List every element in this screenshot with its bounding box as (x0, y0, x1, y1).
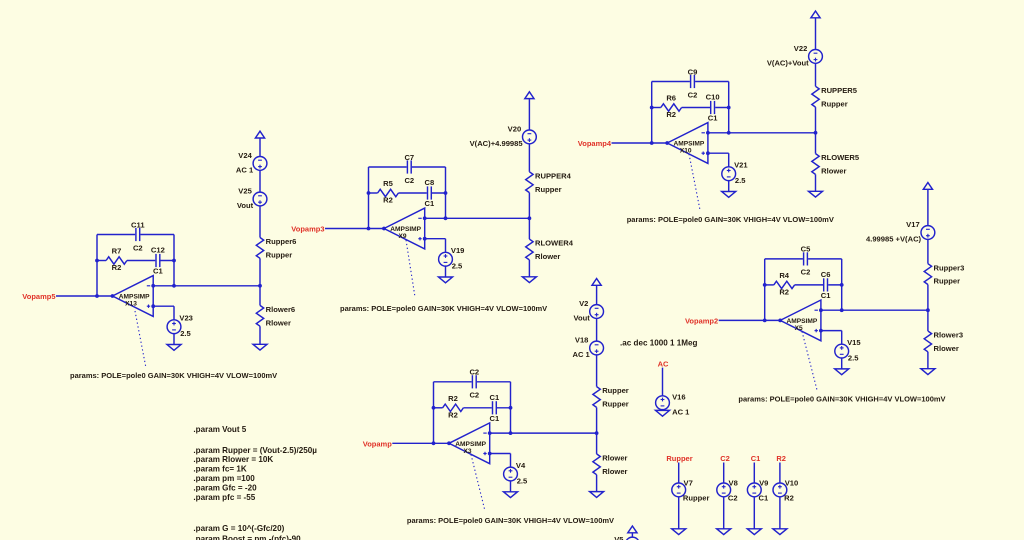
wire X5 Rlower to gnd (927, 352, 929, 369)
wire X9 feedback right vertical (445, 167, 447, 218)
svg-text:AC 1: AC 1 (672, 407, 690, 416)
junction X10 apex pin (665, 141, 669, 145)
capacitor C6 (821, 270, 831, 300)
svg-text:V9: V9 (759, 479, 768, 488)
wire X5 input (719, 319, 781, 321)
wire X13 +in stub (153, 305, 174, 307)
capacitor C10 (706, 93, 720, 123)
capacitor C7 (404, 153, 414, 185)
wire X10 src to Rupper (815, 63, 817, 86)
wire X13 Rlower to gnd (259, 326, 261, 344)
wire X3 +in down (510, 454, 512, 468)
voltage source V10 (R2) (773, 479, 798, 503)
wire X13 feedback right vertical (173, 235, 175, 286)
svg-text:R2: R2 (448, 410, 458, 419)
capacitor C12 (151, 246, 165, 276)
svg-text:AMPSIMP: AMPSIMP (119, 294, 150, 301)
wire V16 top (662, 368, 664, 397)
svg-text:C5: C5 (801, 245, 811, 254)
svg-text:C1: C1 (490, 393, 500, 402)
svg-text:C2: C2 (133, 243, 143, 252)
svg-text:R7: R7 (112, 247, 122, 256)
svg-text:.param G = 10^(-Gfc/20): .param G = 10^(-Gfc/20) (193, 524, 284, 533)
wire X13 +in down (173, 306, 175, 320)
wire X13 -in to divider (153, 285, 260, 287)
svg-text:V4: V4 (516, 461, 526, 470)
svg-text:Rupper: Rupper (666, 454, 692, 463)
leader dotted line X13 params leader (135, 311, 146, 368)
svg-text:V15: V15 (847, 338, 861, 347)
resistor RUPPER5 (812, 86, 858, 108)
svg-text:.ac dec 1000 1 1Meg: .ac dec 1000 1 1Meg (620, 339, 697, 348)
svg-text:C1: C1 (490, 414, 500, 423)
svg-text:C2: C2 (728, 494, 738, 503)
wire X13 feedback left vertical (96, 235, 98, 297)
wire X10 input (612, 142, 668, 144)
svg-text:Vopamp3: Vopamp3 (291, 225, 324, 234)
svg-text:C10: C10 (706, 93, 720, 102)
junction X10 box right-mid (727, 106, 731, 110)
svg-text:Rupper: Rupper (602, 386, 629, 395)
svg-text:C2: C2 (720, 454, 730, 463)
flag arrow X3 divider top (592, 279, 601, 286)
wire X9 Rupper to junction (528, 193, 530, 219)
svg-text:Vout: Vout (237, 201, 254, 210)
svg-text:Vopamp: Vopamp (363, 440, 392, 449)
resistor Rlower3 (924, 331, 963, 353)
wire V8 top (723, 463, 725, 484)
wire X5 +in down (841, 331, 843, 345)
svg-text:AC: AC (658, 359, 669, 368)
junction X3 divider junction (595, 431, 599, 435)
junction X3 box right-mid (509, 406, 513, 410)
junction X9 box right-mid (444, 191, 448, 195)
svg-text:C2: C2 (404, 176, 414, 185)
svg-text:V22: V22 (794, 44, 808, 53)
wire X13 feedback mid left (97, 260, 106, 262)
svg-text:C2: C2 (801, 268, 811, 277)
junction X5 box left-input (763, 319, 767, 323)
svg-text:params: POLE=pole0 GAIN=30K VH: params: POLE=pole0 GAIN=30K VHIGH=4V VLO… (627, 215, 834, 224)
junction X9 -in pin (423, 216, 427, 220)
wire X3 Rupper to junction (596, 407, 598, 433)
svg-text:V23: V23 (179, 314, 193, 323)
junction X13 apex pin (111, 294, 115, 298)
resistor R7 (106, 247, 127, 273)
wire X10 -in to divider (708, 132, 816, 134)
svg-text:Rupper: Rupper (683, 494, 710, 503)
voltage source V24 (AC 1) (236, 151, 267, 175)
voltage source V25 (Vout) (237, 187, 267, 211)
resistor R2 (443, 394, 464, 420)
leader dotted line X10 params leader (689, 154, 700, 210)
voltage source V15 (2.5) (835, 338, 862, 363)
wire X9 feedback mid right (398, 192, 445, 194)
flag arrow X10 divider top (811, 11, 820, 18)
wire X9 feedback top (369, 166, 446, 168)
wire X13 between sources (259, 170, 261, 192)
svg-text:params: POLE=pole0 GAIN=30K VH: params: POLE=pole0 GAIN=30K VHIGH=4V VLO… (70, 371, 277, 380)
svg-text:X10: X10 (680, 148, 692, 155)
wire X10 ref to gnd (728, 181, 730, 192)
wire X10 Rlower to gnd (815, 174, 817, 191)
voltage source V8 (C2) (717, 479, 738, 503)
svg-text:Rupper6: Rupper6 (266, 237, 297, 246)
svg-text:V2: V2 (579, 299, 588, 308)
svg-text:params: POLE=pole0 GAIN=30K VH: params: POLE=pole0 GAIN=30K VHIGH=4V VLO… (340, 304, 547, 313)
wire X3 +in stub (490, 453, 511, 455)
resistor Rupper3 (924, 263, 964, 285)
svg-text:AC 1: AC 1 (236, 166, 254, 175)
svg-text:Rupper: Rupper (821, 99, 848, 108)
capacitor C1 (490, 393, 500, 423)
svg-text:V24: V24 (238, 151, 252, 160)
svg-text:V16: V16 (672, 392, 686, 401)
svg-text:V(AC)+4.99985: V(AC)+4.99985 (470, 139, 524, 148)
resistor RLOWER5 (812, 153, 860, 175)
junction X9 apex pin (382, 227, 386, 231)
svg-text:Rlower: Rlower (821, 167, 846, 176)
wire X9 junction to Rlower (528, 218, 530, 239)
wire X9 feedback left vertical (368, 167, 370, 229)
junction X5 +in pin (819, 329, 823, 333)
wire X3 feedback mid right (463, 407, 510, 409)
svg-text:2.5: 2.5 (517, 476, 528, 485)
voltage source V2 (Vout) (573, 299, 603, 323)
ground V8 (717, 529, 731, 535)
wire X10 feedback mid right (682, 107, 729, 109)
ground V10 (773, 529, 787, 535)
wire X13 feedback top (97, 234, 174, 236)
wire X10 +in stub (708, 152, 729, 154)
junction X10 box left-input (650, 141, 654, 145)
flag arrow V5 top (628, 526, 637, 533)
ground X9 divider (522, 277, 536, 283)
voltage source V21 (2.5) (722, 161, 749, 186)
svg-text:R2: R2 (784, 494, 794, 503)
ground X10 divider (809, 191, 823, 197)
svg-text:V17: V17 (906, 220, 920, 229)
svg-text:Rupper: Rupper (602, 400, 629, 409)
ground X13 ref (167, 345, 181, 351)
ground V7 (672, 529, 686, 535)
svg-text:Rlower: Rlower (535, 252, 560, 261)
svg-text:R2: R2 (112, 263, 122, 272)
svg-text:C7: C7 (404, 153, 414, 162)
svg-text:R2: R2 (779, 288, 789, 297)
junction X9 box left-input (367, 227, 371, 231)
svg-text:.param Rlower = 10K: .param Rlower = 10K (193, 455, 273, 464)
wire X3 Rlower to gnd (596, 475, 598, 492)
wire X5 -in to divider (821, 309, 928, 311)
junction X10 +in pin (706, 151, 710, 155)
svg-text:V20: V20 (508, 124, 522, 133)
svg-text:Vopamp2: Vopamp2 (685, 317, 718, 326)
junction X9 box left-mid (367, 191, 371, 195)
junction X3 box left-input (432, 441, 436, 445)
svg-text:X3: X3 (463, 448, 471, 455)
svg-text:R2: R2 (383, 196, 393, 205)
wire X10 feedback left vertical (651, 82, 653, 144)
svg-text:Vopamp5: Vopamp5 (22, 292, 55, 301)
capacitor C2 (469, 368, 479, 400)
wire X10 feedback mid left (652, 107, 661, 109)
wire X5 feedback left vertical (764, 259, 766, 321)
junction X3 +in pin (488, 452, 492, 456)
svg-text:R4: R4 (779, 271, 789, 280)
junction X3 apex pin (447, 441, 451, 445)
svg-text:C2: C2 (469, 391, 479, 400)
wire V7 to gnd (678, 497, 680, 529)
ground X10 ref (722, 192, 736, 198)
svg-text:Rlower: Rlower (934, 344, 959, 353)
svg-text:RLOWER5: RLOWER5 (821, 153, 860, 162)
capacitor C11 (131, 220, 145, 252)
svg-text:X13: X13 (125, 301, 137, 308)
svg-text:C6: C6 (821, 270, 831, 279)
wire X5 src to Rupper (927, 239, 929, 263)
junction X10 -in pin (706, 131, 710, 135)
junction X5 box left-mid (763, 283, 767, 287)
svg-text:V5: V5 (614, 535, 624, 540)
voltage source V18 (AC 1) (572, 336, 603, 360)
wire X3 junction to Rlower (596, 433, 598, 454)
flag arrow X9 divider top (525, 92, 534, 99)
svg-text:C1: C1 (759, 494, 769, 503)
op-amp X13 (AMPSIMP) (113, 276, 154, 317)
junction X5 box right-mid (840, 283, 844, 287)
svg-text:.param Gfc = -20: .param Gfc = -20 (193, 484, 257, 493)
wire X5 divider top wire (927, 189, 929, 225)
voltage source V16 (AC 1) (656, 392, 691, 416)
svg-text:AMPSIMP: AMPSIMP (674, 141, 705, 148)
svg-text:Rupper: Rupper (266, 251, 293, 260)
svg-text:V25: V25 (238, 187, 252, 196)
svg-text:C2: C2 (469, 368, 479, 377)
wire X13 Rupper to junction (259, 258, 261, 286)
wire V9 top (753, 463, 755, 484)
ground X5 divider (921, 369, 935, 375)
wire X5 junction to Rlower (927, 310, 929, 331)
resistor Rupper (593, 386, 629, 408)
junction X10 box left-mid (650, 106, 654, 110)
capacitor C5 (801, 245, 811, 277)
wire X3 feedback right vertical (510, 382, 512, 433)
wire V10 top (779, 463, 781, 484)
wire X5 +in stub (821, 330, 842, 332)
svg-text:AMPSIMP: AMPSIMP (787, 318, 818, 325)
wire X3 src to Rupper (596, 355, 598, 387)
junction X3 box left-mid (432, 406, 436, 410)
resistor RUPPER4 (526, 171, 572, 193)
resistor Rupper6 (256, 237, 296, 259)
op-amp X10 (AMPSIMP) (667, 123, 708, 164)
svg-text:.param pm =100: .param pm =100 (193, 474, 255, 483)
svg-text:Rupper3: Rupper3 (934, 263, 965, 272)
voltage source V23 (2.5) (167, 314, 193, 339)
svg-text:Rlower6: Rlower6 (266, 305, 296, 314)
svg-text:R5: R5 (383, 179, 393, 188)
junction X9 +in pin (423, 237, 427, 241)
svg-text:V19: V19 (451, 246, 465, 255)
wire X3 ref to gnd (510, 481, 512, 492)
op-amp X5 (AMPSIMP) (780, 300, 821, 341)
junction X9 divider junction (528, 216, 532, 220)
junction X13 +in pin (151, 304, 155, 308)
flag arrow X5 divider top (923, 183, 932, 190)
svg-text:V10: V10 (785, 479, 799, 488)
junction X5 -in pin (819, 308, 823, 312)
junction X5 box right -in (840, 308, 844, 312)
svg-text:.param fc= 1K: .param fc= 1K (193, 465, 246, 474)
voltage source V20 (V(AC)+4.99985) (470, 124, 537, 148)
svg-text:.param Rupper = (Vout-2.5)/250: .param Rupper = (Vout-2.5)/250µ (193, 446, 317, 455)
svg-text:Rupper: Rupper (934, 277, 961, 286)
svg-text:C1: C1 (153, 267, 163, 276)
leader dotted line X9 params leader (406, 240, 415, 297)
junction X3 box right -in (509, 431, 513, 435)
junction X13 -in pin (151, 284, 155, 288)
svg-text:C2: C2 (688, 90, 698, 99)
svg-text:Rlower: Rlower (266, 318, 291, 327)
svg-text:4.99985 +V(AC): 4.99985 +V(AC) (866, 235, 922, 244)
svg-text:C1: C1 (708, 114, 718, 123)
svg-text:.param pfc = -55: .param pfc = -55 (193, 493, 255, 502)
svg-text:.param Vout 5: .param Vout 5 (193, 425, 246, 434)
svg-text:C11: C11 (131, 220, 145, 229)
wire X9 divider top wire (528, 99, 530, 130)
spice directive .param block (193, 425, 317, 540)
svg-text:C9: C9 (688, 67, 698, 76)
wire X3 between sources (596, 318, 598, 341)
junction X9 box right -in (444, 216, 448, 220)
resistor Rlower (593, 454, 628, 476)
svg-text:Rlower: Rlower (602, 467, 627, 476)
svg-text:X5: X5 (795, 325, 803, 332)
wire X10 Rupper to junction (815, 107, 817, 133)
svg-text:V(AC)+Vout: V(AC)+Vout (767, 59, 809, 68)
svg-text:C1: C1 (821, 291, 831, 300)
wire X10 feedback right vertical (728, 82, 730, 133)
resistor Rlower6 (256, 305, 295, 327)
svg-text:RLOWER4: RLOWER4 (535, 239, 574, 248)
svg-text:.param Boost = pm -(pfc)-90: .param Boost = pm -(pfc)-90 (193, 534, 301, 540)
junction X5 divider junction (926, 308, 930, 312)
wire X9 ref to gnd (445, 266, 447, 277)
leader dotted line X5 params leader (802, 332, 817, 391)
wire X9 input (325, 228, 384, 230)
wire X9 Rlower to gnd (528, 260, 530, 277)
wire X9 +in stub (425, 238, 446, 240)
wire X13 src to Rupper (259, 206, 261, 238)
wire X13 ref to gnd (173, 334, 175, 345)
wire X5 feedback mid right (795, 284, 842, 286)
voltage source V5 (cut off) (614, 526, 639, 540)
op-amp X9 (AMPSIMP) (384, 208, 425, 249)
wire X3 feedback left vertical (433, 382, 435, 444)
svg-text:AMPSIMP: AMPSIMP (390, 226, 421, 233)
svg-text:RUPPER4: RUPPER4 (535, 171, 572, 180)
ground X9 ref (439, 277, 453, 283)
svg-text:params: POLE=pole0 GAIN=30K VH: params: POLE=pole0 GAIN=30K VHIGH=4V VLO… (407, 516, 614, 525)
svg-text:R2: R2 (666, 110, 676, 119)
svg-text:R2: R2 (448, 394, 458, 403)
svg-text:Vout: Vout (573, 314, 590, 323)
wire V9 to gnd (753, 497, 755, 529)
op-amp X3 (AMPSIMP) (449, 423, 490, 464)
resistor R5 (378, 179, 399, 205)
ground V16 (656, 410, 670, 416)
svg-text:R2: R2 (776, 454, 786, 463)
voltage source V22 (V(AC)+Vout) (767, 44, 823, 68)
svg-text:C12: C12 (151, 246, 165, 255)
wire V8 to gnd (723, 497, 725, 529)
svg-text:AMPSIMP: AMPSIMP (455, 441, 486, 448)
svg-text:params: POLE=pole0 GAIN=30K VH: params: POLE=pole0 GAIN=30K VHIGH=4V VLO… (738, 395, 945, 404)
junction X13 box right -in (172, 284, 176, 288)
svg-text:C1: C1 (425, 199, 435, 208)
wire X10 divider top wire (815, 18, 817, 50)
svg-text:2.5: 2.5 (180, 329, 191, 338)
wire X10 junction to Rlower (815, 133, 817, 154)
svg-text:V18: V18 (575, 336, 589, 345)
ground X13 divider (253, 344, 267, 350)
svg-text:Vopamp4: Vopamp4 (578, 139, 612, 148)
wire X5 ref to gnd (841, 358, 843, 369)
resistor RLOWER4 (526, 239, 574, 261)
svg-text:2.5: 2.5 (848, 354, 859, 363)
svg-text:V21: V21 (734, 161, 748, 170)
junction X13 box left-mid (95, 259, 99, 263)
wire V10 to gnd (779, 497, 781, 529)
wire X9 src to Rupper (528, 144, 530, 172)
svg-text:R6: R6 (666, 94, 676, 103)
wire X13 input (56, 295, 113, 297)
svg-text:X9: X9 (398, 233, 406, 240)
wire X5 feedback mid left (765, 284, 774, 286)
wire X3 -in to divider (490, 432, 597, 434)
svg-text:C1: C1 (751, 454, 761, 463)
capacitor C8 (425, 178, 435, 208)
wire X3 feedback top (434, 381, 511, 383)
junction X10 box right -in (727, 131, 731, 135)
svg-text:Rupper: Rupper (535, 185, 562, 194)
voltage source V17 (4.99985 +V(AC)) (866, 220, 935, 244)
wire X13 feedback mid right (127, 260, 174, 262)
wire X13 divider top wire (259, 138, 261, 157)
wire X10 feedback top (652, 81, 729, 83)
svg-text:2.5: 2.5 (735, 176, 746, 185)
svg-text:V8: V8 (729, 479, 738, 488)
ground X5 ref (835, 369, 849, 375)
wire X9 -in to divider (425, 217, 530, 219)
junction X13 divider junction (258, 284, 262, 288)
junction X13 box left-input (95, 294, 99, 298)
wire X3 input (392, 442, 449, 444)
wire X9 +in down (445, 239, 447, 253)
wire X5 feedback top (765, 258, 842, 260)
wire X9 feedback mid left (369, 192, 378, 194)
junction X5 apex pin (778, 319, 782, 323)
junction X13 box right-mid (172, 259, 176, 263)
svg-text:V7: V7 (684, 479, 693, 488)
junction X3 -in pin (488, 431, 492, 435)
wire V7 top (678, 463, 680, 484)
svg-text:2.5: 2.5 (452, 262, 463, 271)
resistor R6 (661, 94, 682, 120)
ground V9 (747, 529, 761, 535)
svg-text:Rlower: Rlower (602, 454, 627, 463)
